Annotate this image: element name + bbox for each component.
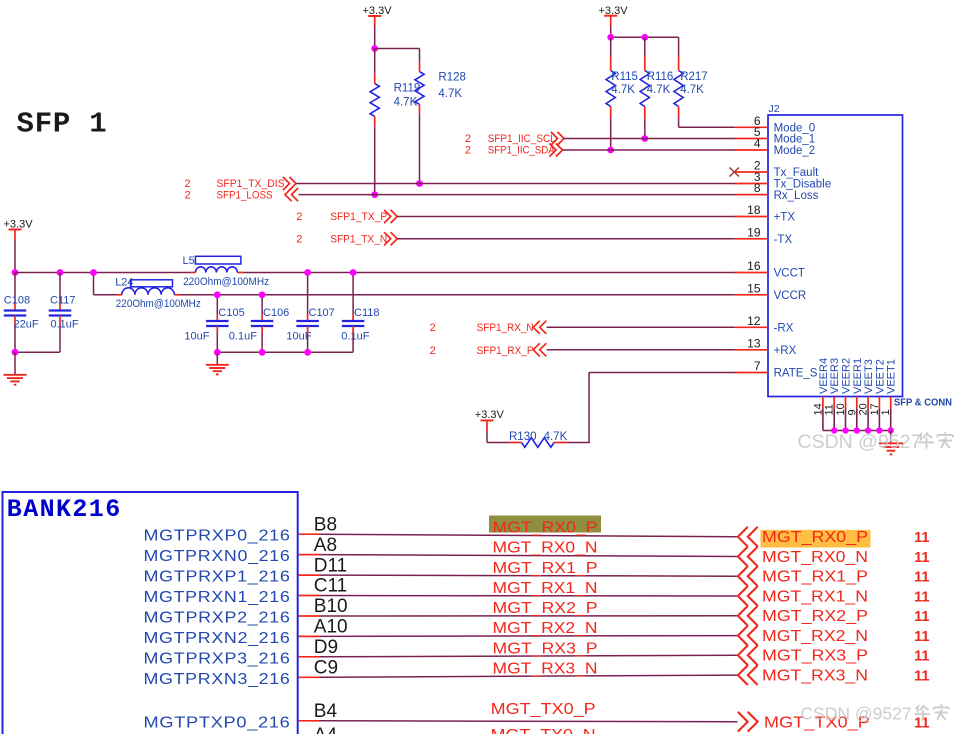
svg-text:MGTPRXP1_216: MGTPRXP1_216 xyxy=(144,569,291,586)
junction dot R115 on SDA xyxy=(607,147,614,154)
wire +3.3V to R119 junction xyxy=(374,26,376,49)
svg-text:Mode_0: Mode_0 xyxy=(774,123,816,135)
resistor R119 xyxy=(374,49,376,74)
pin 13 +RX of J2 xyxy=(735,336,797,357)
junction dot C117 tap xyxy=(57,269,64,276)
svg-text:+3.3V: +3.3V xyxy=(475,409,505,421)
junction dot R115 top xyxy=(607,34,614,41)
svg-text:VEER2: VEER2 xyxy=(841,358,853,394)
svg-text:SFP1_RX_P: SFP1_RX_P xyxy=(477,345,534,357)
svg-text:MGTPRXP0_216: MGTPRXP0_216 xyxy=(144,528,291,545)
svg-text:VEER3: VEER3 xyxy=(829,358,841,394)
svg-text:SFP1_RX_N: SFP1_RX_N xyxy=(477,322,534,334)
svg-text:MGT_RX2_P: MGT_RX2_P xyxy=(493,600,598,617)
power +3.3V symbol (top, R119/R128) xyxy=(363,5,393,27)
svg-text:4: 4 xyxy=(754,137,761,151)
svg-text:220Ohm@100MHz: 220Ohm@100MHz xyxy=(116,298,201,310)
svg-text:SFP 1: SFP 1 xyxy=(17,108,108,141)
svg-text:4.7K: 4.7K xyxy=(647,84,671,96)
svg-text:11: 11 xyxy=(914,609,929,625)
svg-text:L24: L24 xyxy=(115,277,133,289)
svg-text:MGT_RX3_N: MGT_RX3_N xyxy=(762,667,868,684)
svg-text:MGTPRXN1_216: MGTPRXN1_216 xyxy=(144,589,291,606)
wire R115-R217 top rail xyxy=(611,36,679,38)
capacitor C106 top lead xyxy=(261,295,263,314)
svg-text:C107: C107 xyxy=(309,307,335,319)
svg-text:+TX: +TX xyxy=(774,212,796,224)
pin D9 MGTPRXP3_216 of BANK216 xyxy=(144,637,339,667)
svg-text:B4: B4 xyxy=(314,701,338,722)
junction dot R119 top xyxy=(371,45,378,52)
power +3.3V symbol (R130) xyxy=(475,409,505,431)
svg-text:2: 2 xyxy=(185,189,191,201)
inductor L5 red leads xyxy=(191,272,196,274)
wire VCCR rail to J2 VCCR xyxy=(181,294,737,296)
pin 10 VEER2 of J2 (bottom) xyxy=(835,358,853,431)
inductor L24 coil xyxy=(122,288,175,295)
svg-text:A4: A4 xyxy=(314,725,338,734)
pin 16 VCCT of J2 xyxy=(735,259,805,280)
wire R128 to SFP1_TX_DIS xyxy=(419,114,421,183)
capacitor C106 bottom lead xyxy=(261,326,263,334)
wire RATE_S horizontal xyxy=(589,372,737,374)
svg-text:B8: B8 xyxy=(314,514,337,535)
inductor L24 red leads xyxy=(117,294,122,296)
svg-text:0.1uF: 0.1uF xyxy=(229,331,257,343)
pin 11 VEER3 of J2 (bottom) xyxy=(824,358,842,431)
svg-text:SFP1_TX_DIS: SFP1_TX_DIS xyxy=(217,178,285,190)
wire SFP1_TX_P xyxy=(397,216,736,218)
junction dot ground bus 1 xyxy=(831,427,837,433)
capacitor C118 bottom lead xyxy=(352,326,354,334)
inductor L5 coil xyxy=(195,267,237,273)
pin B10 MGTPRXP2_216 of BANK216 xyxy=(144,596,348,626)
capacitor C105 xyxy=(206,321,229,326)
capacitor C108 top lead xyxy=(14,273,16,303)
wire SFP1_TX_N xyxy=(397,238,736,240)
svg-text:10uF: 10uF xyxy=(184,331,209,343)
junction dot R119 bottom on SFP1_LOSS xyxy=(371,191,378,198)
wire +3.3V left stem xyxy=(14,240,16,273)
pin 5 Mode_1 of J2 xyxy=(735,125,816,146)
wire MGT_TX0_P xyxy=(320,720,738,723)
svg-text:-TX: -TX xyxy=(774,234,793,246)
junction dot C118 tap xyxy=(350,269,357,276)
junction dot C106 tap xyxy=(259,291,266,298)
wire RATE_S vertical xyxy=(588,373,590,443)
svg-text:CSDN @9527: CSDN @9527 xyxy=(798,431,922,453)
svg-text:MGT_RX1_N: MGT_RX1_N xyxy=(762,588,868,605)
svg-text:C9: C9 xyxy=(314,658,338,679)
svg-text:B10: B10 xyxy=(314,596,348,617)
wire MGT_RX1_P xyxy=(320,575,738,576)
wire +3.3V stem to R115 rail xyxy=(610,26,612,37)
svg-text:C108: C108 xyxy=(4,294,30,306)
pin 3 Tx_Disable of J2 xyxy=(735,170,832,191)
svg-text:2: 2 xyxy=(185,178,191,190)
wire SFP1_TX_DIS xyxy=(296,183,737,185)
capacitor C118 xyxy=(342,321,365,326)
resistor R128 xyxy=(419,62,421,72)
svg-text:+RX: +RX xyxy=(774,345,797,357)
svg-text:Mode_2: Mode_2 xyxy=(774,145,816,157)
capacitor C107 top lead from VCCT rail xyxy=(307,273,309,315)
pin 14 VEER4 of J2 (bottom) xyxy=(812,358,830,431)
wire MGT_RX0_N xyxy=(320,555,738,557)
pin B8 MGTPRXP0_216 of BANK216 xyxy=(144,514,338,544)
svg-text:R116: R116 xyxy=(647,71,674,83)
svg-text:C105: C105 xyxy=(218,307,244,319)
junction dot ground bus 3 xyxy=(854,427,860,433)
svg-text:MGT_RX1_P: MGT_RX1_P xyxy=(762,569,868,586)
svg-text:8: 8 xyxy=(754,181,761,195)
svg-text:R115: R115 xyxy=(611,71,638,83)
wire MGT_RX1_N xyxy=(320,595,738,598)
wire SFP1_RX_N xyxy=(547,326,737,328)
svg-text:2: 2 xyxy=(465,133,471,145)
junction dot ground bus 5 xyxy=(876,427,882,433)
wire R116 to SFP1_IIC_SCL xyxy=(644,118,646,139)
off-page connector chevron MGT_TX0_P (output) xyxy=(738,712,758,732)
resistor R217 xyxy=(678,37,680,56)
svg-text:2: 2 xyxy=(465,145,471,157)
svg-text:C118: C118 xyxy=(354,307,379,319)
wire SFP1_LOSS xyxy=(299,194,737,196)
wire R119 to SFP1_LOSS xyxy=(374,126,376,194)
junction dot R116 on SCL xyxy=(641,135,648,142)
svg-text:19: 19 xyxy=(747,225,761,239)
svg-text:MGT_RX1_P: MGT_RX1_P xyxy=(493,560,598,577)
svg-text:16: 16 xyxy=(747,259,761,273)
wire MGT_RX2_P xyxy=(320,615,738,617)
wire VEER/VEET ground bus xyxy=(823,430,891,432)
svg-text:D11: D11 xyxy=(314,555,347,576)
wire branch down to VCCR rail xyxy=(93,273,95,295)
pin A8 MGTPRXN0_216 of BANK216 xyxy=(144,535,338,565)
pin 4 Mode_2 of J2 xyxy=(735,137,816,158)
svg-text:MGT_TX0_P: MGT_TX0_P xyxy=(491,701,596,718)
svg-text:4.7K: 4.7K xyxy=(544,431,568,443)
off-page connector chevron MGT_RX3_P xyxy=(738,645,758,665)
wire VCCR branch left segment xyxy=(94,294,117,296)
ground symbol mid xyxy=(216,352,218,364)
capacitor C107 bottom lead xyxy=(307,326,309,334)
svg-text:220Ohm@100MHz: 220Ohm@100MHz xyxy=(183,276,269,288)
pin 9 VEER1 of J2 (bottom) xyxy=(846,358,864,431)
svg-text:11: 11 xyxy=(914,649,929,665)
svg-text:RATE_S: RATE_S xyxy=(774,368,818,380)
svg-text:22uF: 22uF xyxy=(14,319,39,331)
junction dot bus C106 xyxy=(259,349,266,356)
svg-text:SFP1_LOSS: SFP1_LOSS xyxy=(217,189,273,201)
wire VCCT rail right segment to J2 VCCT xyxy=(243,272,737,274)
svg-text:MGT_RX0_P: MGT_RX0_P xyxy=(762,529,868,546)
svg-text:SFP1_TX_N: SFP1_TX_N xyxy=(330,233,387,245)
capacitor C105 top lead xyxy=(216,295,218,314)
off-page connector chevron MGT_RX0_N xyxy=(738,547,758,567)
svg-text:2: 2 xyxy=(430,322,436,334)
wire VCCT rail left segment xyxy=(15,272,191,274)
svg-text:11: 11 xyxy=(914,629,929,645)
junction dot ground bus 4 xyxy=(865,427,871,433)
svg-text:Mode_1: Mode_1 xyxy=(774,134,816,146)
inductor L24 body box xyxy=(131,280,173,287)
junction dot ground bus xyxy=(12,349,19,356)
capacitor C117 top lead xyxy=(59,273,61,303)
junction dot VCCT rail at branch xyxy=(90,269,97,276)
svg-text:MGT_RX0_N: MGT_RX0_N xyxy=(493,540,598,557)
svg-text:VEER1: VEER1 xyxy=(852,358,864,394)
pin 18 +TX of J2 xyxy=(735,203,796,224)
highlight box on net name MGT_RX0_P xyxy=(489,516,601,533)
svg-text:CSDN @9527: CSDN @9527 xyxy=(800,704,911,724)
capacitor C118 top lead from VCCT rail xyxy=(352,273,354,315)
ground symbol left xyxy=(14,352,16,374)
pin 2 Tx_Fault of J2 xyxy=(735,159,820,180)
svg-text:A10: A10 xyxy=(314,617,348,638)
svg-text:2: 2 xyxy=(296,211,302,223)
pin 17 VEET2 of J2 (bottom) xyxy=(869,359,887,430)
junction dot bus C107 xyxy=(304,349,311,356)
svg-text:MGTPRXP3_216: MGTPRXP3_216 xyxy=(144,650,291,667)
resistor R115 xyxy=(610,37,612,56)
pin 15 VCCR of J2 xyxy=(735,281,807,302)
junction dot R116 top xyxy=(641,34,648,41)
off-page connector chevron MGT_RX1_N xyxy=(738,586,758,606)
ground symbol J2 xyxy=(890,431,892,443)
junction dot ground bus 2 xyxy=(842,427,848,433)
wire R130 right segment xyxy=(567,442,590,444)
junction dot bus C105 xyxy=(214,349,221,356)
svg-text:+3.3V: +3.3V xyxy=(363,5,393,17)
wire SFP1_IIC_SDA xyxy=(563,149,737,151)
svg-text:R128: R128 xyxy=(438,71,466,83)
svg-text:C117: C117 xyxy=(50,294,75,306)
svg-text:11: 11 xyxy=(914,550,929,566)
svg-text:MGT_TX0_N: MGT_TX0_N xyxy=(491,727,596,734)
svg-text:SFP1_TX_P: SFP1_TX_P xyxy=(330,211,387,223)
wire MGT_RX3_N xyxy=(320,675,738,677)
svg-text:R119: R119 xyxy=(394,82,421,94)
svg-text:12: 12 xyxy=(747,314,761,328)
junction dot ground bus 6 xyxy=(888,427,894,433)
pin 20 VEET3 of J2 (bottom) xyxy=(858,359,876,430)
svg-text:MGTPRXN0_216: MGTPRXN0_216 xyxy=(144,548,291,565)
wire MGT_RX2_N xyxy=(320,635,738,638)
power +3.3V symbol (R115/R116/R217) xyxy=(599,5,629,26)
svg-text:4.7K: 4.7K xyxy=(680,84,704,96)
off-page connector chevron MGT_RX2_P xyxy=(738,606,758,626)
capacitor C107 xyxy=(296,321,319,326)
svg-text:2: 2 xyxy=(296,233,302,245)
inductor L5 body box xyxy=(195,256,241,264)
svg-text:Rx_Loss: Rx_Loss xyxy=(774,190,819,202)
svg-text:MGT_RX1_N: MGT_RX1_N xyxy=(493,580,598,597)
wire SFP1_RX_P xyxy=(547,349,737,351)
svg-text:11: 11 xyxy=(914,530,929,546)
capacitor C108 xyxy=(4,311,27,316)
svg-text:MGTPRXP2_216: MGTPRXP2_216 xyxy=(144,610,291,627)
svg-text:7: 7 xyxy=(754,359,761,373)
highlight box on off-page label MGT_RX0_P xyxy=(761,530,871,548)
svg-text:MGT_RX0_P: MGT_RX0_P xyxy=(493,520,598,537)
svg-text:-RX: -RX xyxy=(774,323,794,335)
wire MGT_RX0_P xyxy=(320,534,738,537)
svg-text:2: 2 xyxy=(430,345,436,357)
svg-text:SFP1_IIC_SDA: SFP1_IIC_SDA xyxy=(488,145,556,157)
block BANK216 body xyxy=(3,492,298,734)
junction dot C107 tap xyxy=(304,269,311,276)
svg-text:MGT_RX3_P: MGT_RX3_P xyxy=(493,640,598,657)
wire ground bus C108-C117 xyxy=(15,351,60,353)
pin D11 MGTPRXP1_216 of BANK216 xyxy=(144,555,348,585)
off-page connector chevron MGT_RX3_N xyxy=(738,665,758,685)
off-page connector chevron MGT_RX1_P xyxy=(738,566,758,586)
capacitor C117 xyxy=(49,311,72,316)
svg-text:C11: C11 xyxy=(314,576,347,597)
svg-text:VCCT: VCCT xyxy=(774,268,805,280)
svg-text:Tx_Fault: Tx_Fault xyxy=(774,167,820,179)
svg-text:D9: D9 xyxy=(314,637,338,658)
svg-text:11: 11 xyxy=(914,716,929,732)
pin A10 MGTPRXN2_216 of BANK216 xyxy=(144,617,348,647)
svg-text:MGT_RX3_N: MGT_RX3_N xyxy=(493,661,598,678)
svg-text:VEET1: VEET1 xyxy=(886,359,898,394)
junction dot R128 bottom on SFP1_TX_DIS xyxy=(416,180,423,187)
wire ground bus C105-C118 xyxy=(217,351,353,353)
pin 7 RATE_S of J2 xyxy=(735,359,818,380)
wire MGT_RX3_P xyxy=(320,655,738,657)
pin 19 -TX of J2 xyxy=(735,225,793,246)
svg-text:A8: A8 xyxy=(314,535,337,556)
svg-text:R130: R130 xyxy=(509,431,537,443)
connector J2 body xyxy=(768,115,903,397)
svg-text:BANK216: BANK216 xyxy=(7,495,122,524)
svg-text:SFP & CONN: SFP & CONN xyxy=(894,397,952,409)
svg-text:C106: C106 xyxy=(263,307,289,319)
capacitor C117 bottom lead xyxy=(59,316,61,324)
svg-text:J2: J2 xyxy=(769,103,780,115)
svg-text:4.7K: 4.7K xyxy=(394,96,418,108)
resistor R116 xyxy=(644,37,646,56)
svg-text:SFP1_IIC_SCL: SFP1_IIC_SCL xyxy=(488,133,556,145)
resistor R130 xyxy=(554,442,567,444)
capacitor C105 bottom lead xyxy=(216,326,218,334)
capacitor C106 xyxy=(251,321,274,326)
svg-text:L5: L5 xyxy=(183,255,195,267)
wire SFP1_IIC_SCL xyxy=(564,138,737,140)
pin C11 MGTPRXN1_216 of BANK216 xyxy=(144,576,348,606)
pin B4 MGTPTXP0_216 of BANK216 xyxy=(144,701,338,731)
svg-text:11: 11 xyxy=(914,589,929,605)
svg-text:4.7K: 4.7K xyxy=(438,88,462,100)
pin C9 MGTPRXN3_216 of BANK216 xyxy=(144,658,339,688)
pin 12 -RX of J2 xyxy=(735,314,794,335)
svg-text:MGT_RX0_N: MGT_RX0_N xyxy=(762,549,868,566)
capacitor C108 bottom lead xyxy=(14,316,16,324)
pin 8 Rx_Loss of J2 xyxy=(735,181,819,202)
svg-text:11: 11 xyxy=(914,570,929,586)
junction dot C105 tap xyxy=(214,291,221,298)
svg-text:4.7K: 4.7K xyxy=(611,84,635,96)
svg-text:R217: R217 xyxy=(680,71,708,83)
svg-text:VCCR: VCCR xyxy=(774,290,807,302)
svg-text:VEET2: VEET2 xyxy=(874,359,886,394)
svg-text:VEER4: VEER4 xyxy=(818,358,830,394)
svg-text:MGTPRXN2_216: MGTPRXN2_216 xyxy=(144,630,291,647)
pin 1 VEET1 of J2 (bottom) xyxy=(880,359,898,430)
wire R130 left segment xyxy=(487,442,509,444)
svg-text:MGT_RX3_P: MGT_RX3_P xyxy=(762,648,868,665)
off-page connector chevron MGT_RX2_N xyxy=(738,626,758,646)
power +3.3V rail symbol (left) xyxy=(4,219,34,241)
svg-text:VEET3: VEET3 xyxy=(863,359,875,394)
svg-text:13: 13 xyxy=(747,336,761,350)
svg-text:MGTPRXN3_216: MGTPRXN3_216 xyxy=(144,671,291,688)
svg-text:15: 15 xyxy=(747,281,761,295)
wire R217 to Mode_0 pin xyxy=(678,118,680,127)
svg-text:11: 11 xyxy=(914,668,929,684)
off-page connector chevron MGT_RX0_P xyxy=(738,527,758,547)
svg-text:MGT_RX2_P: MGT_RX2_P xyxy=(762,608,868,625)
svg-text:18: 18 xyxy=(747,203,761,217)
svg-text:MGTPTXP0_216: MGTPTXP0_216 xyxy=(144,714,291,731)
svg-text:MGT_RX2_N: MGT_RX2_N xyxy=(493,620,598,637)
wire R115 to SFP1_IIC_SDA xyxy=(610,118,612,150)
svg-text:MGT_RX2_N: MGT_RX2_N xyxy=(762,628,868,645)
svg-text:0.1uF: 0.1uF xyxy=(341,331,369,343)
svg-text:0.1uF: 0.1uF xyxy=(51,319,79,331)
no-connect X on pin 2 Tx_Fault xyxy=(730,168,740,177)
pin 6 Mode_0 of J2 xyxy=(735,114,816,135)
wire R128 top branch xyxy=(375,48,420,50)
junction dot left stem / C108 xyxy=(12,269,19,276)
